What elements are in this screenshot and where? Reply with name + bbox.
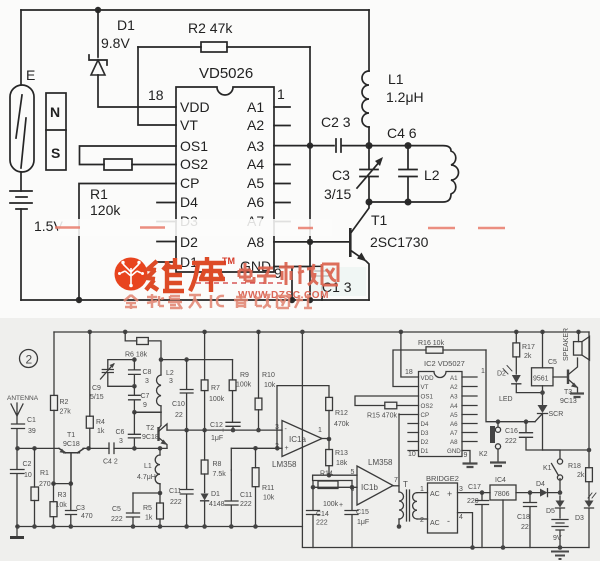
svg-text:A8: A8 (247, 234, 264, 250)
svg-text:+: + (221, 428, 225, 435)
resistor R7 100k (202, 330, 207, 335)
svg-text:T2: T2 (146, 425, 154, 432)
svg-text:C1: C1 (27, 417, 36, 424)
pin GND wire (274, 267, 292, 301)
svg-text:SPEAKER: SPEAKER (563, 328, 570, 361)
svg-text:R16 10k: R16 10k (418, 340, 445, 347)
svg-text:C5: C5 (548, 359, 557, 366)
svg-text:C10: C10 (172, 401, 185, 408)
svg-text:222: 222 (170, 499, 182, 506)
pin A6 (274, 202, 290, 204)
pin A2 (274, 125, 290, 127)
svg-text:A1: A1 (450, 375, 458, 382)
svg-text:+: + (447, 489, 452, 499)
svg-text:C2 3: C2 3 (321, 114, 351, 130)
pin D3 (157, 221, 176, 223)
svg-text:1: 1 (277, 86, 285, 102)
capacitor C4 (369, 146, 417, 202)
reed switch E (10, 85, 34, 172)
svg-text:R2 47k: R2 47k (188, 20, 233, 36)
svg-text:27k: 27k (60, 409, 72, 416)
capacitor C10 22 (161, 359, 233, 361)
transistor T1 9018 (59, 448, 84, 483)
ground left symbol (16, 527, 18, 537)
svg-text:D1: D1 (421, 448, 429, 455)
svg-text:R7: R7 (211, 385, 220, 392)
svg-text:A4: A4 (247, 156, 264, 172)
wire CP pin (399, 414, 419, 416)
svg-text:C6: C6 (116, 429, 125, 436)
resistor R4 1k (88, 330, 93, 335)
capacitor C11 222 (180, 430, 193, 526)
svg-text:2k: 2k (524, 353, 532, 360)
slogan chars (124, 294, 312, 309)
svg-text:4.7μH: 4.7μH (137, 474, 156, 481)
svg-text:1k: 1k (97, 428, 105, 435)
svg-text:2k: 2k (577, 472, 585, 479)
svg-text:-: - (447, 516, 450, 526)
node C4 top (405, 142, 412, 149)
svg-text:3: 3 (145, 378, 149, 385)
svg-text:18: 18 (148, 87, 164, 103)
svg-text:9C18: 9C18 (63, 441, 80, 448)
svg-text:ANTENNA: ANTENNA (7, 395, 39, 402)
svg-text:R1: R1 (40, 470, 49, 477)
svg-text:VD5026: VD5026 (199, 65, 253, 82)
wire L1 bottom node (133, 492, 160, 494)
svg-text:22: 22 (521, 524, 529, 531)
capacitor C7 9 (129, 386, 141, 412)
svg-text:R5: R5 (143, 505, 152, 512)
pin GND IC2 (462, 451, 470, 463)
inductor L2 tank (160, 360, 162, 375)
svg-text:E: E (26, 67, 35, 83)
label circled 2 (20, 350, 38, 368)
svg-text:2: 2 (26, 353, 33, 367)
svg-text:D1: D1 (117, 17, 135, 33)
svg-text:1.2μH: 1.2μH (386, 89, 424, 105)
diode D4 (540, 489, 548, 497)
capacitor C1 39 (12, 424, 25, 448)
capacitor C14 222 (307, 487, 320, 547)
inductor L2 (369, 146, 459, 202)
svg-text:9: 9 (464, 452, 468, 459)
svg-text:10k: 10k (263, 495, 275, 502)
capacitor C13 222 (225, 470, 238, 527)
pin D1 (157, 261, 176, 263)
svg-text:R8: R8 (213, 461, 222, 468)
svg-text:C18: C18 (517, 514, 530, 521)
melody IC 9561 (540, 330, 545, 335)
svg-text:A6: A6 (450, 421, 458, 428)
node A8-base (307, 239, 313, 245)
svg-text:OS2: OS2 (421, 403, 434, 410)
op-amp power line (301, 332, 303, 527)
wire inverting input (231, 447, 282, 449)
svg-text:2: 2 (420, 517, 424, 524)
svg-text:L2: L2 (166, 370, 174, 377)
svg-text:R1: R1 (90, 186, 108, 202)
svg-text:S: S (51, 145, 60, 161)
svg-text:C17: C17 (468, 484, 481, 491)
node A8-rail (307, 297, 313, 303)
capacitor C3 470 (66, 484, 77, 527)
inductor L1 (368, 10, 370, 71)
svg-text:9C13: 9C13 (560, 398, 577, 405)
svg-text:R14: R14 (320, 471, 333, 478)
svg-text:LM358: LM358 (368, 458, 393, 467)
svg-text:A4: A4 (450, 403, 458, 410)
wire bridge out (458, 492, 491, 494)
svg-text:C7: C7 (141, 393, 150, 400)
svg-text:A1: A1 (247, 99, 264, 115)
pin D2 (157, 241, 176, 243)
wire capsule to battery (20, 172, 22, 191)
svg-text:C15: C15 (356, 509, 369, 516)
pin A3 wire (274, 145, 310, 147)
resistor R5 1k (159, 493, 161, 503)
svg-text:D5: D5 (546, 508, 555, 515)
svg-text:R12: R12 (335, 410, 348, 417)
svg-text:C9: C9 (92, 385, 101, 392)
wire A-line IC2 (486, 350, 535, 422)
char wei (146, 258, 184, 292)
battery 1.5V (10, 191, 32, 209)
svg-text:3: 3 (119, 438, 123, 445)
transistor T1 2SC1730 (310, 241, 350, 243)
svg-text:GND: GND (447, 448, 461, 455)
wire A-line vertical (309, 47, 311, 300)
svg-text:R15 470k: R15 470k (367, 413, 397, 420)
svg-text:4: 4 (459, 514, 463, 521)
char ku (190, 257, 226, 292)
pins D4-D1 (408, 424, 419, 451)
resistor R12 470k feedback (277, 386, 329, 449)
switch K1 (543, 450, 589, 459)
resistor R8 7.5k + diode D1 4148 (204, 430, 206, 460)
svg-text:7.5k: 7.5k (213, 471, 227, 478)
OS loop R15 470k (355, 396, 419, 406)
svg-text:T1: T1 (371, 212, 388, 228)
svg-text:VT: VT (180, 117, 198, 133)
svg-text:LED: LED (499, 396, 513, 403)
wire tank bottom (134, 411, 161, 413)
resistor R2 47k (138, 46, 310, 48)
wire pin6 feedback R14 (313, 481, 357, 488)
svg-text:10: 10 (24, 472, 32, 479)
wire left ground rail (16, 527, 589, 548)
svg-text:D2: D2 (180, 234, 198, 250)
svg-text:C11: C11 (240, 492, 252, 499)
capacitor C18 22 (516, 492, 540, 494)
pin A7 (274, 221, 290, 223)
wire left rail (20, 10, 22, 85)
svg-text:R6 18k: R6 18k (125, 352, 148, 359)
svg-text:10k: 10k (264, 382, 276, 389)
resistor R16 10k (393, 350, 486, 387)
svg-text:C2: C2 (23, 461, 32, 468)
svg-text:9: 9 (143, 402, 147, 409)
capacitor C15 1uF (345, 487, 358, 547)
svg-text:LM358: LM358 (272, 460, 297, 469)
op-amp IC1b LM358 (357, 466, 393, 505)
svg-text:VT: VT (421, 384, 429, 391)
svg-text:OS1: OS1 (421, 394, 434, 401)
svg-text:CP: CP (421, 412, 430, 419)
transistor T2 9018 (159, 412, 162, 429)
capacitor C16 222 (524, 419, 529, 424)
svg-text:R10: R10 (262, 372, 275, 379)
svg-text:222: 222 (316, 520, 328, 527)
capacitor C4 coupling (109, 443, 114, 454)
svg-text:A3: A3 (450, 394, 458, 401)
regulator IC4 7806 (490, 485, 516, 500)
svg-text:222: 222 (111, 516, 123, 523)
svg-text:BRIDGE2: BRIDGE2 (426, 474, 459, 483)
capacitor C2 (310, 139, 369, 152)
capacitor C5 222 (127, 493, 140, 527)
variable capacitor C3 (360, 146, 378, 202)
svg-text:K2: K2 (479, 451, 488, 458)
svg-text:R2: R2 (60, 399, 69, 406)
svg-text:R11: R11 (262, 485, 274, 492)
capacitor C2 10 (11, 448, 25, 526)
svg-text:R3: R3 (58, 492, 67, 499)
svg-text:3/15: 3/15 (324, 186, 351, 202)
node rail-C1 (15, 446, 20, 451)
resistor R1 120k (104, 159, 132, 170)
svg-text:1μF: 1μF (211, 435, 223, 442)
pin A4 (274, 164, 290, 166)
wire top rail (21, 9, 369, 11)
svg-text:C11: C11 (169, 488, 181, 495)
svg-text:C3: C3 (76, 505, 85, 512)
svg-text:18k: 18k (336, 460, 348, 467)
resistor R11 10k (255, 448, 257, 467)
svg-text:R18: R18 (568, 463, 581, 470)
svg-text:T: T (403, 480, 408, 489)
svg-text:A2: A2 (450, 384, 458, 391)
svg-text:VDD: VDD (180, 99, 210, 115)
variable capacitor C9 5/15 (102, 360, 134, 387)
svg-text:C4 6: C4 6 (387, 125, 417, 141)
svg-text:R17: R17 (522, 344, 535, 351)
svg-text:3: 3 (169, 378, 173, 385)
svg-text:D2: D2 (421, 439, 429, 446)
LED D3 (585, 501, 594, 508)
red dashed line (196, 282, 284, 284)
LED D2 (512, 375, 521, 383)
svg-text:100k: 100k (209, 396, 225, 403)
resistor R6 18k (123, 330, 128, 335)
resistor R13 18k (328, 439, 330, 450)
svg-text:IC4: IC4 (495, 477, 506, 484)
node C3 bottom (366, 199, 373, 206)
battery 9V (552, 520, 568, 548)
ground right symbol (551, 552, 569, 560)
chars dian zi shi chang wang (239, 262, 338, 285)
svg-text:TM: TM (222, 256, 235, 266)
svg-text:7: 7 (394, 477, 398, 484)
transformer T secondary (413, 493, 417, 519)
transistor T3 9013 (553, 376, 568, 378)
svg-text:AC: AC (430, 491, 440, 498)
wire VT (138, 47, 176, 125)
svg-text:D1: D1 (211, 491, 220, 498)
wire bottom rail (21, 299, 369, 301)
pin D4 (157, 202, 176, 204)
svg-text:CP: CP (180, 175, 199, 191)
svg-text:D3: D3 (575, 515, 584, 522)
wire base bias down (53, 448, 55, 483)
svg-text:C14: C14 (316, 511, 329, 518)
svg-text:C5: C5 (112, 506, 121, 513)
svg-text:5/15: 5/15 (90, 394, 104, 401)
resistor R9 100k + capacitor C12 1uF (232, 360, 234, 380)
capacitor C6 3 (128, 412, 140, 448)
wire CP to ground rail (79, 184, 176, 301)
svg-text:+: + (339, 502, 343, 509)
capacitor C8 3 (132, 357, 137, 362)
svg-text:1: 1 (420, 486, 424, 493)
svg-text:222: 222 (240, 501, 252, 508)
svg-text:T1: T1 (67, 432, 75, 439)
svg-text:D2: D2 (497, 371, 506, 378)
node C4 bottom (405, 199, 412, 206)
speaker (576, 330, 581, 335)
resistor R3 10k (53, 484, 55, 502)
svg-text:10: 10 (408, 451, 416, 458)
inductor L1 4.7uH (158, 446, 163, 451)
svg-text:A6: A6 (247, 194, 264, 210)
svg-text:C4 2: C4 2 (103, 459, 118, 466)
svg-text:9.8V: 9.8V (101, 35, 130, 51)
pin A5 (274, 183, 290, 185)
svg-text:470: 470 (81, 513, 93, 520)
svg-text:D4: D4 (421, 421, 429, 428)
zener D5 (556, 501, 565, 508)
svg-text:4148: 4148 (209, 501, 225, 508)
svg-text:270: 270 (39, 481, 51, 488)
svg-text:222: 222 (505, 438, 517, 445)
zener diode D1 (97, 10, 99, 57)
svg-text:9C18: 9C18 (142, 434, 159, 441)
svg-text:A5: A5 (450, 412, 458, 419)
svg-text:1μF: 1μF (357, 519, 369, 526)
op-amp IC1a LM358 (282, 421, 322, 457)
svg-text:SCR: SCR (549, 411, 564, 418)
pins A1-A8 (462, 377, 477, 442)
svg-text:A5: A5 (247, 175, 264, 191)
svg-text:D4: D4 (180, 194, 198, 210)
svg-text:R9: R9 (240, 372, 249, 379)
wire output pin7 / CP (393, 485, 399, 487)
svg-text:100k: 100k (323, 501, 339, 508)
svg-text:22: 22 (175, 412, 183, 419)
resistor R17 2k (514, 330, 519, 335)
wire OS1 loop (80, 146, 177, 165)
node A3 (307, 142, 313, 148)
magnet N/S (46, 93, 66, 170)
svg-text:100k: 100k (236, 382, 252, 389)
svg-text:N: N (50, 104, 60, 120)
pin A1 (274, 106, 290, 108)
svg-text:R13: R13 (335, 450, 348, 457)
switch K2 (496, 419, 501, 424)
svg-text:10k: 10k (56, 502, 68, 509)
svg-text:OS1: OS1 (180, 138, 208, 154)
wire pin5 (313, 475, 357, 480)
wire top supply rail (54, 331, 589, 333)
svg-text:IC1b: IC1b (361, 483, 378, 492)
svg-text:R4: R4 (96, 419, 105, 426)
svg-text:18: 18 (405, 369, 413, 376)
pin A8 wire (274, 241, 310, 243)
svg-text:IC1a: IC1a (289, 435, 306, 444)
svg-text:L1: L1 (144, 463, 152, 470)
svg-text:C8: C8 (143, 369, 152, 376)
svg-text:+: + (285, 445, 289, 452)
svg-text:IC2 VD5027: IC2 VD5027 (424, 359, 465, 368)
svg-text:VDD: VDD (421, 375, 435, 382)
resistor R10 10k (256, 330, 261, 335)
resistor R2 27k bias (53, 332, 55, 395)
svg-text:1: 1 (318, 427, 322, 434)
node L1-C3 (366, 142, 373, 149)
svg-text:7806: 7806 (494, 491, 510, 498)
svg-text:D3: D3 (421, 430, 429, 437)
node top-rail D1 junction (95, 7, 101, 13)
svg-text:A3: A3 (247, 138, 264, 154)
node CP-ground (76, 297, 82, 303)
svg-text:2SC1730: 2SC1730 (370, 234, 429, 250)
svg-text:39: 39 (28, 428, 36, 435)
wire IC2 VDD (399, 330, 404, 335)
svg-text:L2: L2 (424, 167, 440, 183)
resistor R18 2k (588, 332, 590, 468)
svg-text:120k: 120k (90, 202, 121, 218)
svg-text:1k: 1k (145, 515, 153, 522)
svg-text:1: 1 (481, 368, 485, 375)
svg-text:220: 220 (467, 498, 479, 505)
wire SCR cathode to K1 (543, 449, 561, 451)
svg-text:C16: C16 (505, 428, 518, 435)
transformer T primary (399, 492, 404, 519)
svg-text:C3: C3 (332, 167, 350, 183)
svg-text:OS2: OS2 (180, 156, 208, 172)
svg-text:A7: A7 (450, 430, 458, 437)
svg-text:D4: D4 (536, 481, 545, 488)
svg-text:9561: 9561 (533, 376, 549, 383)
node GND-rail (289, 297, 295, 303)
wire preamp node (167, 429, 282, 431)
svg-text:K1: K1 (543, 465, 552, 472)
capacitor C17 220 (476, 493, 489, 548)
resistor R1 270 (32, 446, 37, 451)
svg-text:AC: AC (430, 520, 440, 527)
wire signal rail (17, 447, 167, 449)
svg-text:9V: 9V (553, 535, 562, 542)
SCR (538, 405, 548, 413)
svg-text:A2: A2 (247, 117, 264, 133)
svg-text:470k: 470k (334, 421, 350, 428)
svg-text:A8: A8 (450, 439, 458, 446)
wire output node (322, 438, 329, 440)
capacitor C1 (292, 267, 329, 301)
svg-text:L1: L1 (388, 71, 404, 87)
bridge rectifier BRIDGE2 (428, 483, 458, 533)
